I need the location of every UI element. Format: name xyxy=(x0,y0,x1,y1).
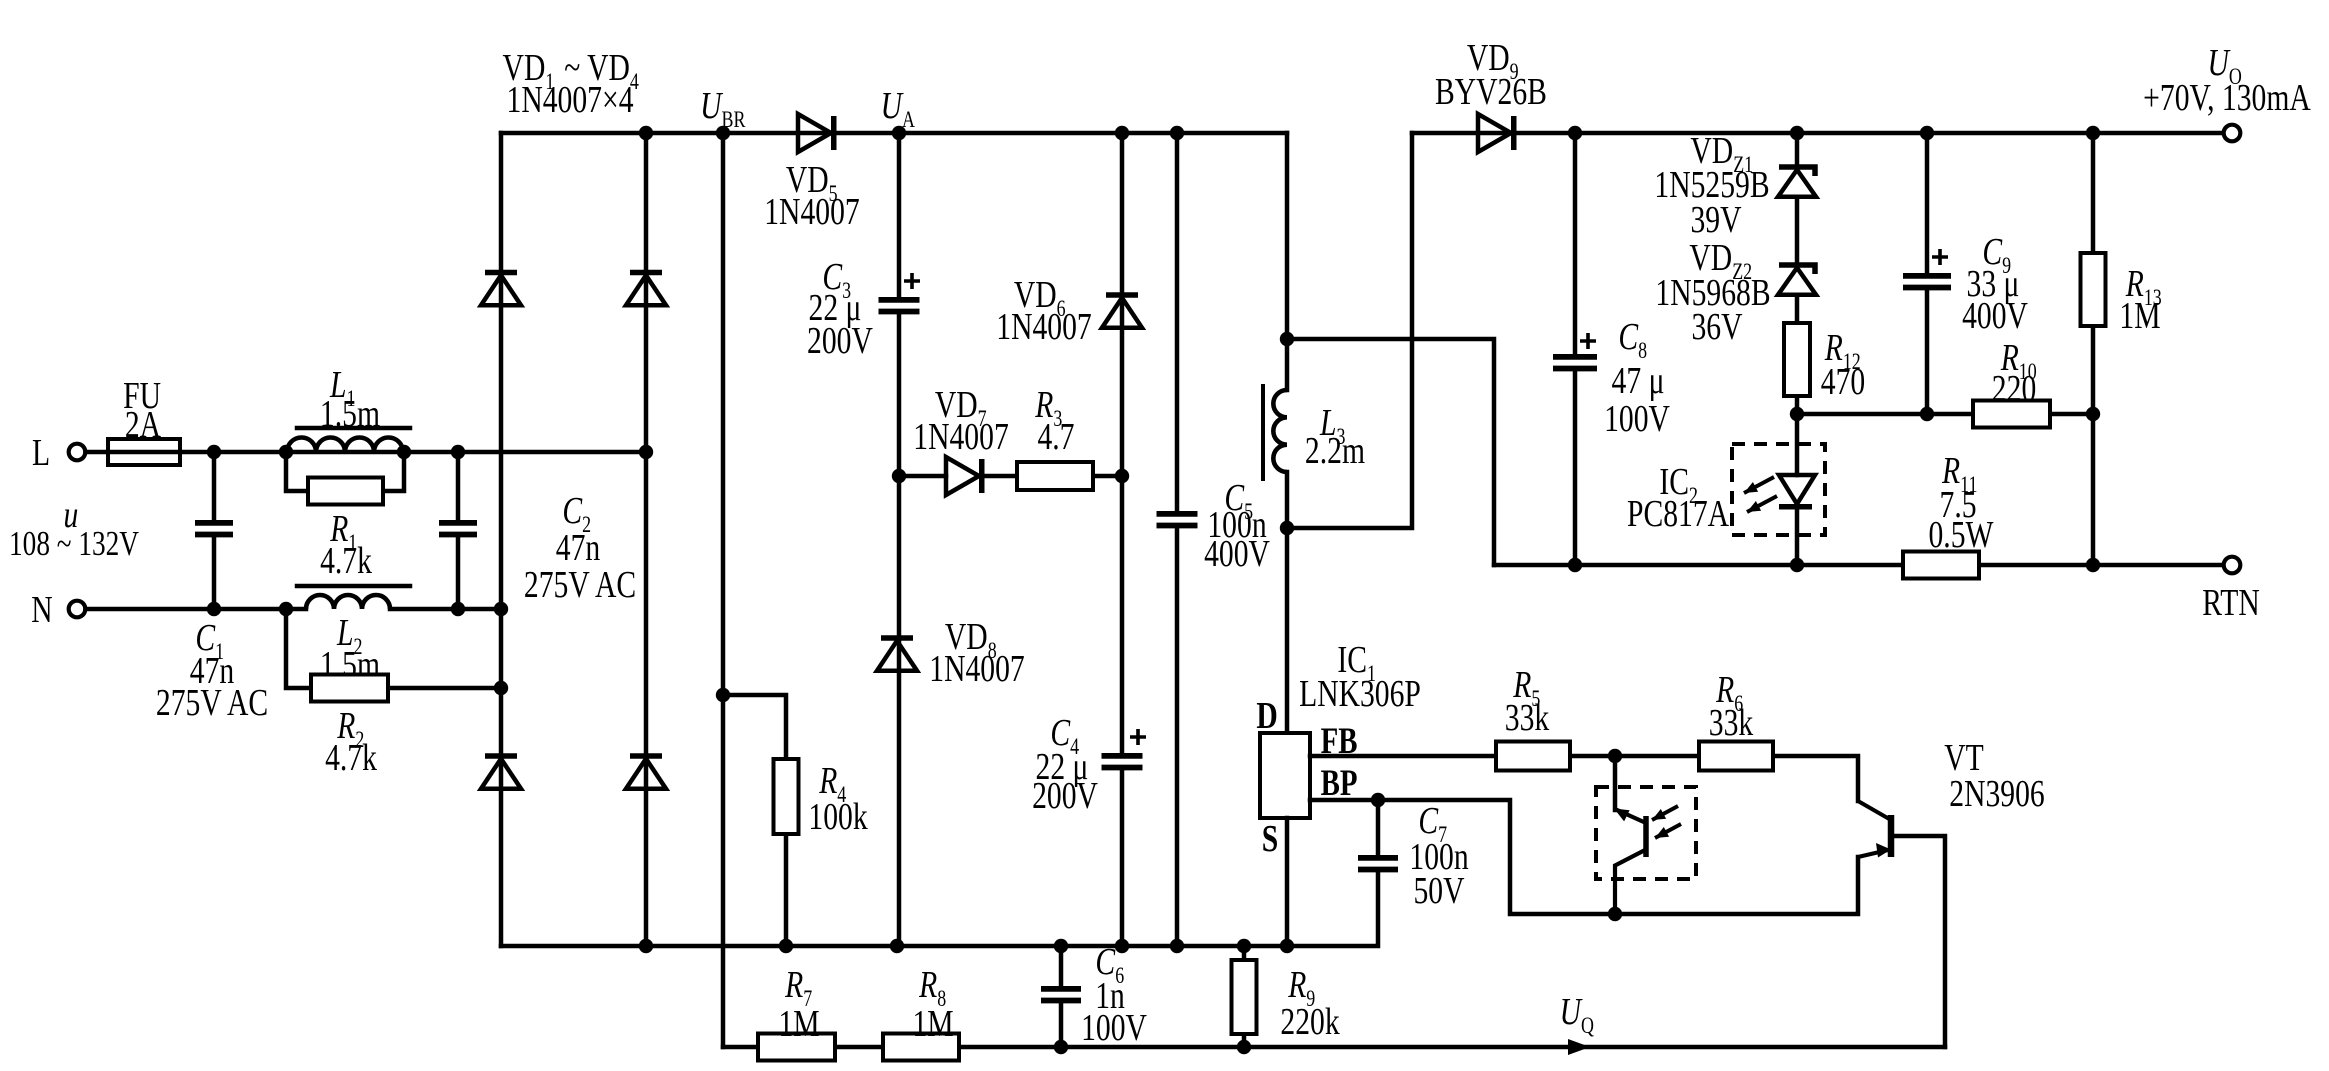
svg-text:400V: 400V xyxy=(1962,296,2028,337)
wire UA vertical line xyxy=(897,133,902,946)
svg-text:+70V, 130mA: +70V, 130mA xyxy=(2143,78,2311,119)
svg-text:LNK306P: LNK306P xyxy=(1299,674,1421,715)
wire UBR vertical xyxy=(721,133,726,1047)
wire N line xyxy=(86,607,502,612)
diode VD7 xyxy=(946,457,979,495)
resistor R4 xyxy=(723,695,786,946)
svg-text:470: 470 xyxy=(1821,362,1865,403)
svg-text:200V: 200V xyxy=(1032,776,1098,817)
svg-text:N: N xyxy=(31,590,52,631)
svg-text:1.5m: 1.5m xyxy=(320,394,380,435)
resistor R8 xyxy=(883,1034,959,1061)
wire L3 top to RTN corner xyxy=(1287,339,1494,565)
wire bottom rail xyxy=(501,871,1378,946)
capacitor C3 xyxy=(879,300,920,312)
wire L3 bottom to top rail riser xyxy=(1287,133,1412,528)
svg-text:1M: 1M xyxy=(2119,296,2160,337)
diode VD2 bridge upper-right xyxy=(630,270,662,276)
wire VD7 R3 branch xyxy=(899,474,1122,479)
optocoupler phototransistor xyxy=(1613,756,1618,810)
svg-text:220k: 220k xyxy=(1280,1002,1340,1043)
resistor R6 xyxy=(1699,742,1773,771)
svg-text:1M: 1M xyxy=(912,1004,953,1045)
diode VD3 bridge lower-left xyxy=(485,753,517,759)
resistor R2 xyxy=(286,609,501,688)
capacitor C9 xyxy=(1903,276,1951,288)
wire C9 vertical xyxy=(1925,133,1930,414)
resistor R9 xyxy=(1242,946,1247,1047)
inductor L1 xyxy=(287,438,403,453)
svg-text:1N4007: 1N4007 xyxy=(929,649,1024,690)
svg-text:47 μ: 47 μ xyxy=(1612,361,1665,402)
terminal N xyxy=(69,601,86,618)
capacitor C8 xyxy=(1553,357,1597,369)
inductor L2 xyxy=(306,595,390,609)
inductor L3 xyxy=(1273,390,1287,472)
svg-text:275V AC: 275V AC xyxy=(156,683,268,724)
transistor VT 2N3906 xyxy=(1888,815,1895,857)
terminal RTN xyxy=(2224,557,2241,574)
svg-text:39V: 39V xyxy=(1690,200,1741,241)
diode VD1 bridge upper-left xyxy=(485,270,517,276)
wire RTN rail xyxy=(1494,563,2232,568)
wire bridge right vertical xyxy=(644,133,649,946)
svg-text:100k: 100k xyxy=(808,797,868,838)
diode VD8 xyxy=(881,635,913,641)
diode VD6 xyxy=(1106,292,1138,298)
resistor R10 xyxy=(1973,401,2050,428)
IC2 LED xyxy=(1779,475,1815,504)
capacitor C2 xyxy=(456,452,461,609)
diode VD9 xyxy=(1478,114,1511,152)
resistor R3 xyxy=(1017,462,1093,490)
diode VD5 xyxy=(798,114,831,152)
svg-text:1N4007: 1N4007 xyxy=(996,307,1091,348)
svg-text:2N3906: 2N3906 xyxy=(1949,774,2044,815)
wire zener chain vertical xyxy=(1795,133,1800,475)
capacitor C4 xyxy=(1102,756,1143,768)
svg-text:PC817A: PC817A xyxy=(1627,494,1729,535)
wire C8 vertical xyxy=(1573,133,1578,565)
svg-text:S: S xyxy=(1262,819,1278,860)
wire L line xyxy=(86,450,647,455)
terminal L xyxy=(69,444,86,461)
wire bridge left vertical xyxy=(499,133,504,946)
fuse FU 2A xyxy=(108,439,180,465)
svg-text:4.7k: 4.7k xyxy=(320,541,373,582)
svg-text:275V AC: 275V AC xyxy=(524,565,636,606)
svg-text:2A: 2A xyxy=(125,405,162,446)
svg-text:100V: 100V xyxy=(1081,1008,1147,1049)
svg-text:50V: 50V xyxy=(1414,871,1465,912)
resistor R1 xyxy=(286,452,404,491)
svg-text:400V: 400V xyxy=(1204,534,1270,575)
svg-text:200V: 200V xyxy=(807,321,873,362)
svg-text:100V: 100V xyxy=(1604,399,1670,440)
terminal UO xyxy=(2224,125,2241,142)
zener diode VDZ1 xyxy=(1779,167,1815,176)
svg-text:1N4007: 1N4007 xyxy=(913,417,1008,458)
svg-text:BYV26B: BYV26B xyxy=(1435,72,1547,113)
capacitor C7 xyxy=(1376,800,1381,855)
capacitor C6 xyxy=(1059,946,1064,1047)
svg-text:33k: 33k xyxy=(1505,698,1550,739)
wire bottom UQ line xyxy=(723,1045,1945,1050)
svg-text:4.7: 4.7 xyxy=(1037,417,1074,458)
IC2 light emission arrows xyxy=(1744,477,1774,493)
resistor R12 xyxy=(1784,323,1810,396)
resistor R7 xyxy=(758,1034,835,1061)
wire C5 vertical xyxy=(1175,133,1180,946)
svg-text:1N4007×4: 1N4007×4 xyxy=(507,80,634,121)
svg-text:36V: 36V xyxy=(1691,307,1742,348)
wire top rail right segment xyxy=(1412,131,2232,136)
svg-text:108 ~ 132V: 108 ~ 132V xyxy=(9,524,139,563)
resistor R13 xyxy=(2081,253,2106,326)
capacitor C5 xyxy=(1157,514,1198,526)
svg-text:4.7k: 4.7k xyxy=(325,738,378,779)
optocoupler IC2 phototransistor dashed box xyxy=(1596,787,1696,879)
svg-text:47n: 47n xyxy=(556,528,600,569)
capacitor C1 xyxy=(212,452,217,609)
wire feedback node R12 bottom xyxy=(1790,407,1804,421)
svg-text:RTN: RTN xyxy=(2202,583,2259,624)
IC2 LED dashed box xyxy=(1732,444,1825,535)
svg-text:D: D xyxy=(1256,696,1277,737)
wire IC1 S to bottom rail xyxy=(1285,818,1290,946)
wire VT base to UQ line xyxy=(1894,836,1945,1047)
wire FB line xyxy=(1310,756,1858,801)
svg-text:220: 220 xyxy=(1992,369,2036,410)
svg-text:33k: 33k xyxy=(1709,703,1754,744)
zener diode VDZ2 xyxy=(1779,265,1815,274)
wire L3 branch top xyxy=(1285,133,1290,390)
wire VD6 C4 vertical xyxy=(1120,133,1125,946)
wire L3 bottom node xyxy=(1285,472,1290,733)
svg-text:2.2m: 2.2m xyxy=(1305,431,1365,472)
IC1 LNK306P body xyxy=(1260,733,1310,818)
svg-text:BP: BP xyxy=(1321,763,1358,804)
optocoupler light arrows xyxy=(1652,806,1678,820)
svg-text:1N4007: 1N4007 xyxy=(764,192,859,233)
UQ arrow xyxy=(1568,1039,1590,1055)
svg-text:0.5W: 0.5W xyxy=(1928,515,1994,556)
wire BP line xyxy=(1310,800,1858,914)
resistor R11 xyxy=(1903,552,1979,579)
resistor R5 xyxy=(1496,742,1570,771)
wire top rail from bridge to L3 xyxy=(501,131,1287,136)
svg-text:L: L xyxy=(32,433,50,474)
wire R13 vertical xyxy=(2091,133,2096,565)
svg-text:1M: 1M xyxy=(778,1004,819,1045)
diode VD4 bridge lower-right xyxy=(630,753,662,759)
